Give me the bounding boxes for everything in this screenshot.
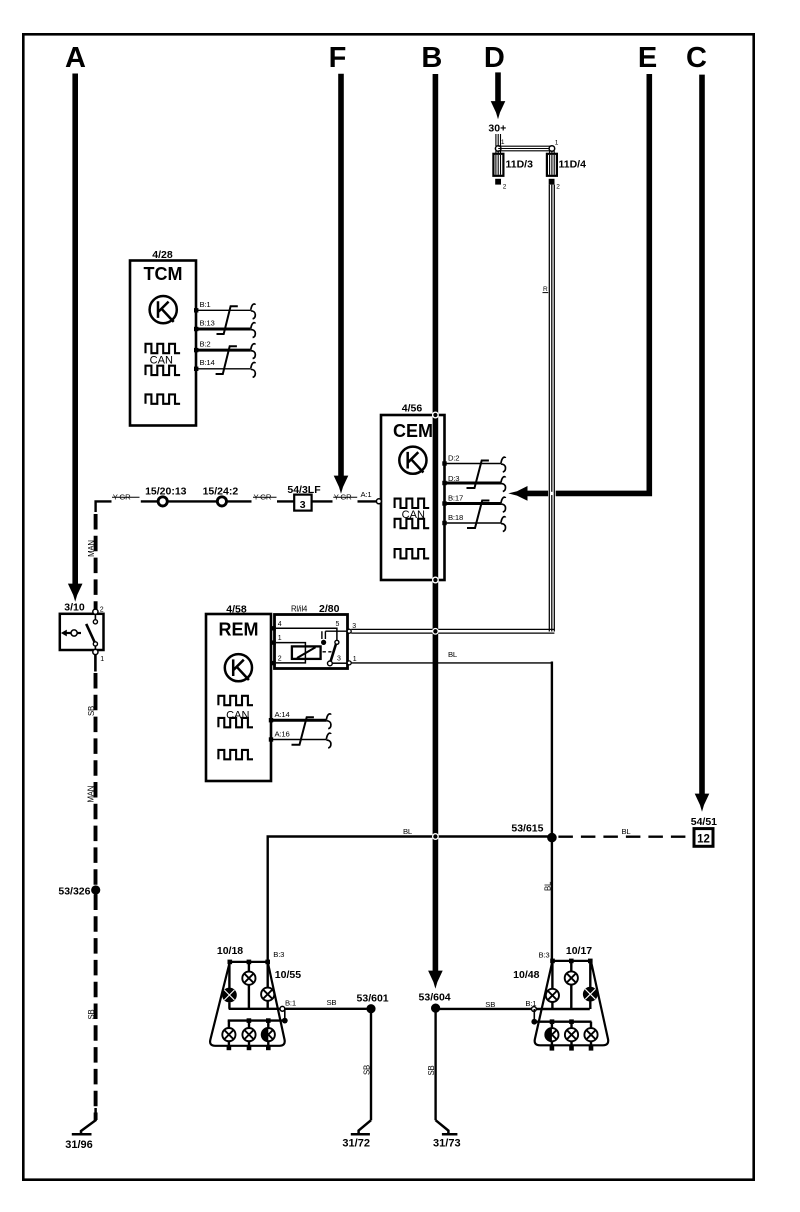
connector 54/51 [691,816,717,846]
svg-text:1: 1 [501,139,505,146]
pin 1 switch 3/10 [93,649,104,663]
node A label [65,42,86,74]
svg-text:12: 12 [697,833,710,845]
pin A:14 REM with wire [269,710,327,722]
svg-text:10/17: 10/17 [566,945,592,957]
svg-text:2: 2 [556,184,560,191]
lamp 10/17 lower-right [584,1022,597,1051]
svg-text:D: D [484,42,505,74]
svg-text:C: C [686,42,707,74]
svg-text:31/72: 31/72 [342,1137,370,1149]
svg-text:3: 3 [337,656,341,663]
pin A:16 REM with wire [269,730,327,742]
lamp (half) 10/18 lower-right [262,1021,275,1051]
svg-text:A:14: A:14 [275,710,291,719]
svg-text:SB: SB [87,706,96,716]
CAN symbol CEM [395,499,430,559]
wire SB dashed (switch pin 1 down) [86,655,96,886]
svg-text:B:1: B:1 [200,300,211,309]
pin A:1 wire into CEM [375,500,377,502]
svg-text:CEM: CEM [393,421,433,441]
svg-text:SB: SB [363,1065,372,1075]
svg-text:2: 2 [278,655,282,662]
twisted pair symbol CEM D:2/D:3 [467,457,506,491]
lamp cluster 10/48 label [513,969,539,981]
pin D:2 CEM with wire [442,453,501,465]
pin B:1 TCM with wire [194,300,251,313]
svg-text:B:3: B:3 [539,951,550,960]
node junction fuse 11D/4 pin 1 [496,146,555,154]
svg-text:B:13: B:13 [200,319,215,328]
wire crossing rings B through CEM box [433,412,439,583]
pin A:1 CEM [361,490,382,504]
svg-text:SB: SB [87,1009,96,1019]
wire MAN dashed (Y-GR run down to switch 3/10 pin 2) [87,514,96,609]
pin 1 label fuse 11D/4 [555,140,559,147]
junction 53/604 [419,992,451,1013]
svg-text:3/10: 3/10 [64,602,85,614]
CAN symbol REM [218,696,253,760]
svg-text:4: 4 [278,621,282,628]
connector 15/20:13 [145,486,187,506]
ground 31/96 [65,1108,95,1151]
switch 3/10 [60,602,104,651]
svg-text:54/51: 54/51 [691,816,717,828]
junction 53/601 [357,992,389,1013]
wire arrow C [695,75,710,812]
pin B:2 TCM with wire [194,339,251,352]
K symbol CEM [399,447,426,474]
lamp 10/18 upper-middle [242,962,255,1009]
lamp (filled) 10/18 upper-left [222,962,237,1009]
wire arrow E (bends left into CEM B:17 area) [508,74,649,501]
svg-text:B:2: B:2 [200,339,211,348]
svg-text:1: 1 [100,656,104,663]
svg-text:B: B [421,42,442,74]
svg-text:BL: BL [543,881,552,891]
node junction 30+ to fuses [495,146,501,152]
node D label [484,42,505,74]
svg-text:30+: 30+ [488,123,506,135]
pin B:1 cluster 10/18 with mid rail [229,999,296,1024]
wire label R [543,286,549,293]
pin B:17 CEM with wire [442,493,501,505]
svg-text:1: 1 [353,656,357,663]
wire arrow A [68,74,83,602]
svg-text:BL: BL [403,827,413,836]
svg-text:B:14: B:14 [200,358,216,367]
lower rail 10/18 [228,1018,285,1023]
svg-text:SB: SB [327,998,337,1007]
svg-text:Rl/il4: Rl/il4 [291,605,308,614]
svg-text:3: 3 [352,623,356,630]
wire fuse feed horizontal (triple line) [498,146,552,151]
K symbol REM [225,654,252,681]
pin 2 switch 3/10 [93,607,104,615]
svg-text:F: F [329,42,347,74]
wire label Y-GR (3) [333,493,357,502]
svg-text:10/18: 10/18 [217,945,243,957]
svg-text:53/604: 53/604 [419,992,451,1004]
relay coil [276,643,332,663]
twisted pair symbol CEM B:17/B:18 [467,497,506,531]
svg-text:A:16: A:16 [275,730,290,739]
relay 2/80 (Rl/il4) [275,603,348,669]
pin B:3 cluster 10/18 [228,950,285,964]
svg-text:REM: REM [219,620,259,640]
wire SB junction 53/604 to ground 31/73 [427,1013,436,1121]
connector 15/24:2 [203,486,239,506]
node B label [421,42,442,74]
svg-text:15/20:13: 15/20:13 [145,486,187,498]
relay pins to REM (4,1,2) [271,621,341,666]
lower rail 10/48 [534,1019,591,1024]
fuse 11D/4 [547,154,586,176]
svg-text:1: 1 [555,140,559,147]
wire Y-GR horizontal run [96,501,377,512]
wire arrow B [428,74,443,989]
svg-text:1: 1 [278,635,282,642]
pin D:3 CEM with wire [442,474,501,485]
control module REM 4/58 [206,603,271,781]
lamp 10/17 upper-middle [565,961,578,1009]
fuse 11D/3 [493,154,533,176]
svg-text:3: 3 [300,499,306,511]
wire relay pin3 to R feed (double line) [351,629,554,635]
lamp cluster 10/55 label [275,969,301,981]
pin B:18 CEM with wire [442,513,501,525]
wire BL vertical (relay pin 1 down to cluster 10/48) [543,662,552,961]
twisted pair symbol TCM B:2/B:14 [216,344,256,378]
svg-text:31/73: 31/73 [433,1137,461,1149]
junction 53/326 [58,885,100,897]
twisted pair symbol TCM B:1/B:13 [217,304,256,338]
twisted pair symbol REM A:14/A:16 [292,714,331,748]
lamp 10/48 upper-left [546,961,559,1009]
svg-text:TCM: TCM [144,264,183,284]
wire SB junction 53/604 to cluster 10/48 [436,1000,532,1009]
pin B:13 TCM with wire [194,319,251,332]
svg-text:E: E [638,42,657,74]
pin B:3 cluster 10/17 [539,951,593,964]
pin B:1 cluster 10/48 with mid rail [525,999,589,1025]
pin 3 relay (external) [347,623,356,633]
wire SB dashed (53/326 to ground 31/96) [87,895,96,1121]
svg-text:11D/4: 11D/4 [559,159,587,171]
lamp 10/18 lower-left [222,1021,235,1051]
control module TCM 4/28 [130,249,196,426]
wire BL dashed to 54/51 [558,827,694,837]
lamp 10/17 lower-middle [565,1022,578,1051]
CAN symbol TCM [146,344,181,404]
svg-text:R: R [543,286,548,293]
wire label Y-GR (1) [112,493,140,502]
svg-text:SB: SB [427,1065,436,1075]
svg-text:MAN: MAN [87,540,96,557]
junction 53/615 [511,823,556,843]
lamp cluster 10/18 outline [210,945,285,1046]
wire 30+ feed (triple line) [496,134,501,146]
connector 54/3LF [287,484,321,511]
svg-text:D:2: D:2 [448,453,459,462]
lamp (half) 10/48 lower-left [545,1022,558,1051]
svg-text:10/48: 10/48 [513,969,539,981]
lamp 10/55 upper-right [261,962,274,1009]
wire label Y-GR (2) [253,493,277,502]
wire BL relay pin1 to junction 53/615 [351,650,552,663]
pin 2 fuse 11D/3 [495,179,507,191]
svg-text:SB: SB [485,1000,495,1009]
svg-text:31/96: 31/96 [65,1139,93,1151]
pin 1 label fuse 11D/3 [501,139,505,146]
svg-text:MAN: MAN [86,786,95,803]
svg-text:2: 2 [503,184,507,191]
pin 2 fuse 11D/4 [549,179,561,191]
lamp 10/18 lower-middle [242,1021,255,1051]
wire SB cluster 10/18 to junction 53/601 [285,998,367,1009]
svg-text:10/55: 10/55 [275,969,301,981]
svg-text:2: 2 [100,607,104,614]
wire arrow F [334,74,349,494]
svg-text:53/326: 53/326 [58,885,90,897]
ground 31/72 [342,1120,371,1149]
node E label [638,42,657,74]
svg-text:A:1: A:1 [361,490,372,499]
switch actuator arrow [61,630,81,637]
svg-text:BL: BL [448,650,458,659]
node 30+ battery feed [488,123,506,135]
svg-text:53/601: 53/601 [357,992,389,1004]
wire SB junction 53/601 to ground 31/72 [363,1013,372,1120]
relay internal: pin4 line and switch arm [276,628,348,666]
svg-text:BL: BL [622,827,632,836]
wire arrow D [491,72,506,119]
ground 31/73 [433,1120,461,1149]
pin 1 relay (external) [347,656,357,665]
lamp (filled) 10/17 upper-right [583,961,598,1009]
svg-text:B:3: B:3 [273,950,284,959]
svg-text:B:18: B:18 [448,513,463,522]
switch contacts and arm [86,614,97,650]
node F label [329,42,347,74]
svg-text:A: A [65,42,86,74]
K symbol TCM [150,296,177,323]
control module CEM 4/56 [381,403,445,581]
node C label [686,42,707,74]
lamp cluster 10/17 outline [535,945,609,1046]
svg-text:B:1: B:1 [285,999,296,1008]
relay internal: pin5 line and fixed contact [321,631,348,645]
svg-text:4/56: 4/56 [402,403,423,415]
svg-text:B:17: B:17 [448,493,463,502]
wire BL horizontal to left cluster [268,827,552,962]
svg-text:53/615: 53/615 [511,823,543,835]
svg-text:11D/3: 11D/3 [506,159,534,171]
pin B:14 TCM with wire [194,358,251,371]
svg-text:5: 5 [336,621,340,628]
wire R feed from fuse 11D/4 down to relay (triple line) [549,185,554,632]
